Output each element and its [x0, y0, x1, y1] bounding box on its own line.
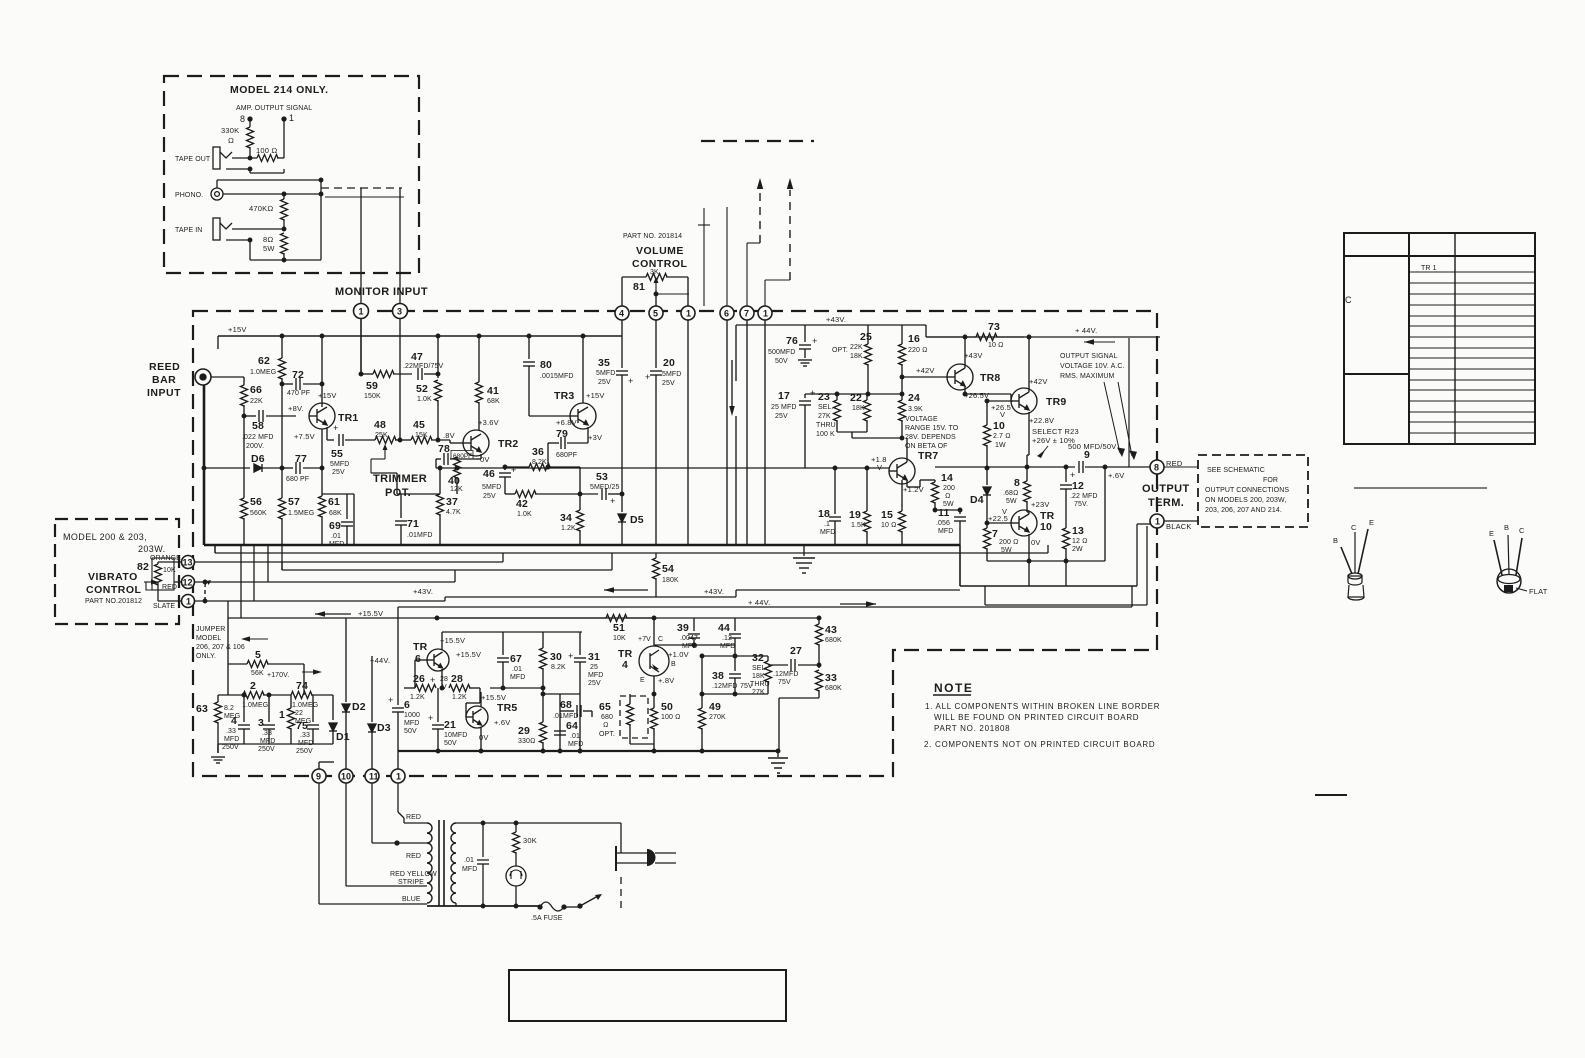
- row 645: [654, 644, 694, 646]
- svg-text:200 Ω: 200 Ω: [999, 539, 1019, 546]
- wire term1 black to box: [1164, 520, 1198, 522]
- svg-text:RED: RED: [162, 584, 177, 591]
- svg-text:.01: .01: [512, 666, 522, 673]
- terminal 5: [649, 306, 663, 320]
- svg-text:18: 18: [818, 508, 830, 520]
- svg-text:PART NO. 201814: PART NO. 201814: [623, 233, 682, 240]
- transistor TR2: [463, 430, 489, 456]
- svg-text:203W.: 203W.: [138, 544, 166, 554]
- svg-text:+42V: +42V: [1029, 377, 1048, 386]
- svg-text:470 PF: 470 PF: [287, 390, 310, 397]
- select arrow: [1040, 446, 1048, 456]
- wire 14 bottom junction to 11: [933, 508, 937, 512]
- svg-text:75V.: 75V.: [1074, 501, 1088, 508]
- svg-text:REED: REED: [149, 361, 180, 373]
- TR2 emitter wire: [480, 454, 482, 459]
- svg-text:44: 44: [718, 622, 730, 634]
- terminal 3 monitor: [393, 304, 408, 319]
- transistor TR9: [1011, 388, 1037, 414]
- mid row 688: [490, 687, 543, 689]
- svg-text:TR 1: TR 1: [1421, 265, 1437, 272]
- primary winding: [427, 823, 432, 903]
- svg-text:B: B: [1504, 523, 1509, 532]
- +15.5V arrow left: [315, 613, 351, 615]
- svg-text:+: +: [610, 496, 616, 506]
- svg-text:680K: 680K: [825, 685, 842, 692]
- see schematic text: [1205, 467, 1289, 514]
- capacitor 20 5MFD 25V: [655, 320, 657, 368]
- TR10 emitter down: [1028, 534, 1030, 561]
- resistor 42 1.0K row: [505, 493, 515, 495]
- svg-text:50V: 50V: [775, 358, 788, 365]
- +43V top bus: [736, 324, 926, 326]
- resistor 65 680 OPT: [629, 694, 631, 704]
- svg-text:TR3: TR3: [554, 390, 574, 402]
- svg-text:1.0MEG: 1.0MEG: [250, 369, 276, 376]
- TR8 emitter: [964, 386, 966, 394]
- svg-text:1: 1: [186, 597, 191, 607]
- svg-text:+15.5V: +15.5V: [440, 636, 465, 645]
- terminal 1 monitor: [354, 304, 369, 319]
- svg-text:+7.5V: +7.5V: [294, 432, 315, 441]
- wire 45 to TR2 base: [449, 440, 451, 443]
- svg-text:FOR: FOR: [1263, 477, 1278, 484]
- svg-text:52: 52: [416, 383, 428, 395]
- resistor 1 22MEG: [290, 695, 292, 708]
- svg-text:5W: 5W: [263, 244, 275, 253]
- resistor 33 680K: [816, 670, 823, 691]
- svg-text:62: 62: [258, 355, 270, 367]
- svg-text:17: 17: [778, 390, 790, 402]
- terminal 1c drop: [764, 320, 766, 545]
- svg-text:1000: 1000: [404, 712, 420, 719]
- terminal 1 vibrato: [182, 595, 195, 608]
- svg-text:250V: 250V: [222, 744, 239, 751]
- svg-text:+: +: [430, 675, 436, 685]
- svg-text:C: C: [1351, 523, 1357, 532]
- wire 44V bus down to output rail: [1128, 338, 1130, 467]
- svg-text:3.9K: 3.9K: [908, 406, 923, 413]
- svg-text:42: 42: [516, 498, 528, 510]
- svg-text:3: 3: [258, 717, 264, 729]
- secondary bottom rail: [455, 903, 457, 906]
- svg-text:5: 5: [653, 309, 658, 319]
- title block rectangle: [509, 970, 786, 1021]
- harness line 12 y582: [194, 581, 455, 583]
- svg-text:5MFD: 5MFD: [482, 484, 501, 491]
- wire 32 top row: [735, 655, 768, 657]
- svg-text:200V.: 200V.: [246, 443, 264, 450]
- svg-text:4: 4: [619, 309, 624, 319]
- resistor 56 560K: [243, 416, 245, 498]
- svg-text:.22 MFD: .22 MFD: [1070, 493, 1098, 500]
- capacitor 6 1000MFD 50V: [397, 690, 399, 705]
- plug wiring: [620, 823, 622, 853]
- svg-text:+: +: [511, 465, 517, 475]
- svg-text:330K: 330K: [221, 126, 239, 135]
- trimmer bracket to 71: [371, 472, 397, 474]
- svg-text:ON MODELS 200, 203W,: ON MODELS 200, 203W,: [1205, 497, 1286, 504]
- TR4 emitter: [653, 676, 655, 694]
- resistor 63 8.2MEG: [217, 695, 219, 702]
- svg-text:53: 53: [596, 471, 608, 483]
- terminal 8 dot: [248, 117, 252, 121]
- jumper dashed arrow: [205, 583, 210, 602]
- svg-text:8.2: 8.2: [224, 705, 234, 712]
- svg-text:81: 81: [633, 281, 645, 293]
- svg-text:79: 79: [556, 428, 568, 440]
- svg-text:B: B: [671, 661, 676, 668]
- wire term10 to stripe lead: [345, 783, 347, 886]
- svg-text:13: 13: [183, 558, 193, 568]
- svg-text:1.0MEG: 1.0MEG: [292, 702, 318, 709]
- svg-text:68: 68: [560, 699, 572, 711]
- svg-text:+1.0V: +1.0V: [668, 650, 689, 659]
- svg-text:+: +: [1070, 470, 1076, 480]
- svg-text:2W: 2W: [1072, 546, 1083, 553]
- svg-text:E: E: [1489, 529, 1494, 538]
- svg-text:22: 22: [295, 710, 303, 717]
- svg-text:2. COMPONENTS NOT ON PRINTED C: 2. COMPONENTS NOT ON PRINTED CIRCUIT BOA…: [924, 740, 1155, 749]
- capacitor 64 .01 MFD: [554, 731, 566, 735]
- svg-text:5MFD: 5MFD: [596, 370, 615, 377]
- svg-text:TR8: TR8: [980, 372, 1000, 384]
- resistor 62 1.0MEG: [281, 336, 283, 358]
- svg-text:22K: 22K: [850, 344, 863, 351]
- svg-text:RED: RED: [406, 853, 421, 860]
- svg-text:8Ω: 8Ω: [263, 235, 273, 244]
- svg-text:MFD: MFD: [568, 741, 583, 748]
- capacitor 58 .022MFD 200V: [244, 415, 256, 417]
- svg-text:49: 49: [709, 701, 721, 713]
- resistor 57 1.5MEG: [279, 498, 286, 519]
- capacitor 55 5MFD 25V: [339, 434, 343, 446]
- TR3 base row: [529, 415, 570, 417]
- svg-text:4.7K: 4.7K: [446, 509, 461, 516]
- svg-text:+15.5V: +15.5V: [358, 609, 383, 618]
- svg-text:OUTPUT: OUTPUT: [1142, 483, 1190, 495]
- +44V arrow left: [1084, 341, 1115, 343]
- capacitor 75 .33MFD 250V: [312, 695, 314, 722]
- svg-text:+.6V: +.6V: [494, 718, 510, 727]
- capacitor 38 .12MFD 75V: [729, 674, 741, 678]
- svg-text:C: C: [1519, 526, 1525, 535]
- 38/32 bottom row to 49: [702, 693, 768, 695]
- capacitor 47 .22MFD/75V: [418, 368, 422, 380]
- svg-text:82: 82: [137, 561, 149, 573]
- svg-text:.33: .33: [262, 730, 272, 737]
- svg-text:D2: D2: [352, 701, 366, 713]
- svg-text:D3: D3: [377, 722, 391, 734]
- svg-text:+43V.: +43V.: [704, 587, 724, 596]
- bottom joining wire: [250, 259, 321, 261]
- svg-text:10: 10: [1040, 521, 1052, 533]
- svg-text:OPT.: OPT.: [832, 347, 848, 354]
- svg-text:1: 1: [359, 307, 364, 317]
- TR5 base riser: [479, 688, 481, 703]
- svg-text:5MFD/25: 5MFD/25: [590, 484, 620, 491]
- resistor 30K: [515, 823, 517, 832]
- wire 23/22 bottom: [837, 431, 867, 433]
- transistor TR5: [466, 706, 488, 728]
- tape out sleeve wire: [226, 168, 250, 170]
- down arrow on wire x732: [731, 360, 733, 410]
- svg-text:75V: 75V: [778, 679, 791, 686]
- TR6 base wire: [415, 659, 427, 661]
- svg-text:BAR: BAR: [152, 374, 176, 386]
- svg-text:PART NO. 201808: PART NO. 201808: [934, 724, 1010, 733]
- svg-text:1: 1: [763, 309, 768, 319]
- svg-text:100 Ω: 100 Ω: [661, 714, 681, 721]
- svg-text:28V. DEPENDS: 28V. DEPENDS: [905, 434, 956, 441]
- bottom row power: [987, 560, 1105, 562]
- svg-text:25V: 25V: [483, 493, 496, 500]
- svg-text:27K: 27K: [818, 413, 831, 420]
- svg-text:SLATE: SLATE: [153, 603, 175, 610]
- transistor TR3: [570, 403, 596, 429]
- +43V arrow left: [604, 589, 648, 591]
- capacitor 39 .0047MFD: [693, 618, 695, 631]
- svg-text:+43V: +43V: [964, 351, 983, 360]
- svg-text:50: 50: [661, 701, 673, 713]
- svg-text:58: 58: [252, 420, 264, 432]
- transistor TR6: [427, 649, 449, 671]
- TR10 base wire: [986, 508, 988, 523]
- resistor 29 330ohm: [542, 694, 544, 722]
- resistor 43 680K: [818, 618, 820, 624]
- wire rail to black terminal: [1136, 524, 1138, 586]
- svg-text:SEL.: SEL.: [818, 404, 834, 411]
- terminal 6 drop: [726, 320, 728, 545]
- wire term11 to center tap: [371, 783, 373, 843]
- svg-text:RMS. MAXIMUM: RMS. MAXIMUM: [1060, 373, 1115, 380]
- svg-text:57: 57: [288, 496, 300, 508]
- diode D4: [986, 468, 988, 485]
- svg-text:+3.6V: +3.6V: [478, 418, 499, 427]
- svg-text:56: 56: [250, 496, 262, 508]
- svg-text:D6: D6: [251, 453, 265, 465]
- phono hot wire: [223, 193, 321, 195]
- svg-text:41: 41: [487, 385, 499, 397]
- svg-text:B: B: [1333, 536, 1338, 545]
- left riser x254: [253, 545, 255, 601]
- svg-text:WILL BE FOUND ON PRINTED CIRCU: WILL BE FOUND ON PRINTED CIRCUIT BOARD: [934, 713, 1139, 722]
- svg-text:4: 4: [231, 715, 237, 727]
- svg-text:80: 80: [540, 359, 552, 371]
- svg-text:10K: 10K: [163, 567, 176, 574]
- svg-text:+6.8V: +6.8V: [556, 418, 577, 427]
- svg-text:.12MFD: .12MFD: [712, 683, 738, 690]
- capacitor 68 .01MFD: [559, 694, 561, 751]
- svg-text:25: 25: [860, 331, 872, 343]
- svg-text:36: 36: [532, 446, 544, 458]
- svg-text:SEL: SEL: [752, 665, 766, 672]
- +44V arrow right: [840, 603, 866, 605]
- wire 62 to 57 column: [281, 378, 283, 498]
- svg-text:OUTPUT SIGNAL: OUTPUT SIGNAL: [1060, 353, 1118, 360]
- svg-text:.0047: .0047: [680, 635, 698, 642]
- capacitor 79 680PF: [561, 437, 565, 449]
- capacitor 53 5MFD/25: [602, 488, 606, 500]
- TR1 emitter column: [321, 429, 323, 496]
- TR7 collector: [906, 438, 908, 462]
- terminal 7: [740, 306, 754, 320]
- svg-text:220 Ω: 220 Ω: [908, 347, 928, 354]
- svg-text:30: 30: [550, 651, 562, 663]
- svg-text:MFD: MFD: [404, 720, 419, 727]
- svg-text:TR7: TR7: [918, 450, 938, 462]
- left riser x282: [281, 545, 283, 570]
- svg-text:67: 67: [510, 653, 522, 665]
- svg-text:680: 680: [601, 714, 613, 721]
- svg-text:MFD: MFD: [588, 672, 603, 679]
- resistor 23 SEL 27K THRU 100K: [836, 394, 838, 400]
- svg-text:68K: 68K: [487, 398, 500, 405]
- capacitor 12 .22MFD 75V: [1065, 467, 1067, 482]
- wire pot top to 13: [157, 562, 159, 564]
- svg-text:470KΩ: 470KΩ: [249, 204, 273, 213]
- svg-text:21: 21: [444, 719, 456, 731]
- resistor 30 8.2K: [542, 632, 544, 648]
- bottom row jumper section: [218, 743, 333, 745]
- svg-text:+: +: [333, 423, 339, 433]
- svg-text:45: 45: [413, 419, 425, 431]
- svg-text:JUMPER: JUMPER: [196, 626, 225, 633]
- svg-text:12: 12: [1072, 480, 1084, 492]
- terminal 12 vibrato: [182, 576, 195, 589]
- svg-text:18K: 18K: [752, 673, 765, 680]
- svg-text:8.2K: 8.2K: [532, 459, 547, 466]
- wire term9 to BLUE: [318, 783, 320, 904]
- svg-text:25V: 25V: [332, 469, 345, 476]
- stub wire terminal 6 above border: [726, 207, 728, 306]
- resistor 34 1.2K: [578, 492, 582, 496]
- svg-text:43: 43: [825, 624, 837, 636]
- bus riser from 736: [735, 325, 737, 381]
- svg-text:1.0K: 1.0K: [517, 511, 532, 518]
- resistor 74 1.0MEG: [291, 692, 312, 699]
- center rail segment preamp: [436, 467, 457, 469]
- svg-text:76: 76: [786, 335, 798, 347]
- svg-text:+ 44V.: + 44V.: [1075, 326, 1097, 335]
- svg-text:Ω: Ω: [228, 136, 234, 145]
- svg-text:11: 11: [369, 772, 379, 782]
- svg-text:C: C: [1345, 295, 1352, 305]
- svg-text:2.7 Ω: 2.7 Ω: [993, 433, 1011, 440]
- svg-text:MODEL 200 & 203,: MODEL 200 & 203,: [63, 532, 147, 542]
- TR10 collector: [1028, 512, 1030, 514]
- TR7 base rail (center rail): [457, 467, 889, 469]
- svg-text:12 Ω: 12 Ω: [1072, 538, 1088, 545]
- monitor wire1 lower: [360, 318, 362, 374]
- svg-text:23: 23: [818, 391, 830, 403]
- svg-text:.33: .33: [226, 728, 236, 735]
- svg-text:11: 11: [938, 507, 950, 519]
- terminal 13 vibrato: [182, 556, 195, 569]
- parts table frame: [1344, 233, 1535, 444]
- resistor 22 18K: [866, 394, 868, 400]
- resistor 73 10 ohm: [926, 336, 976, 338]
- svg-text:25 MFD: 25 MFD: [771, 404, 797, 411]
- capacitor 71 .01MFD: [400, 494, 402, 518]
- capacitor 9 500MFD/50V: [1079, 461, 1083, 473]
- transistor TR4: [639, 646, 669, 676]
- capacitor 11 .056 MFD: [959, 510, 961, 514]
- resistor 16 220 ohm: [901, 325, 903, 344]
- svg-text:28: 28: [440, 676, 448, 683]
- svg-text:.8V: .8V: [443, 431, 455, 440]
- phono top loop wire: [216, 180, 218, 188]
- svg-text:+: +: [812, 336, 818, 346]
- svg-text:22K: 22K: [250, 398, 263, 405]
- fuse .5A: [539, 905, 541, 907]
- svg-text:.5A FUSE: .5A FUSE: [531, 915, 563, 922]
- svg-text:2: 2: [250, 680, 256, 692]
- svg-text:+.8V: +.8V: [658, 676, 674, 685]
- resistor 32 SEL 18K THRU 27K: [767, 656, 769, 661]
- capacitor 67 .01MFD: [502, 632, 504, 655]
- svg-text:8: 8: [1154, 463, 1159, 473]
- 31 bottom to row: [579, 688, 581, 694]
- harness +43V line: [445, 596, 736, 598]
- transistor TR8: [947, 364, 973, 390]
- dashed shielded link to monitor wires: [321, 187, 402, 189]
- svg-text:25V: 25V: [588, 680, 601, 687]
- resistor 25 OPT 22K 18K: [867, 325, 869, 344]
- svg-text:+: +: [810, 388, 816, 398]
- svg-text:+15V: +15V: [228, 325, 247, 334]
- 470K resistor: [283, 194, 285, 199]
- capacitor 76 500MFD 50V: [804, 325, 806, 342]
- terminal 7 drop: [746, 320, 748, 545]
- resistor 19 1.5K: [866, 468, 868, 511]
- rail 632 TR6: [442, 631, 582, 633]
- svg-text:+.6V: +.6V: [1108, 471, 1124, 480]
- separator line under table: [1354, 487, 1487, 489]
- see-schematic dashed box: [1198, 455, 1308, 527]
- svg-text:TRIMMER: TRIMMER: [373, 473, 427, 485]
- TR5 collector: [480, 692, 482, 707]
- svg-text:5MFD: 5MFD: [662, 371, 681, 378]
- svg-text:24: 24: [908, 392, 920, 404]
- svg-text:25: 25: [590, 664, 598, 671]
- svg-text:+44V.: +44V.: [370, 656, 390, 665]
- svg-text:V: V: [1002, 507, 1007, 516]
- terminal 1b drop: [687, 320, 689, 545]
- svg-text:+: +: [645, 372, 651, 382]
- svg-text:TR1: TR1: [338, 412, 358, 424]
- svg-text:25V: 25V: [662, 380, 675, 387]
- svg-text:.1: .1: [824, 521, 830, 528]
- svg-text:E: E: [1369, 518, 1374, 527]
- svg-text:.01: .01: [570, 733, 580, 740]
- monitor wire 3 drop: [399, 318, 401, 440]
- svg-text:+: +: [568, 651, 574, 661]
- svg-text:8: 8: [240, 114, 245, 124]
- svg-text:35: 35: [598, 357, 610, 369]
- TR6 emitter: [441, 669, 443, 688]
- svg-text:200: 200: [943, 485, 955, 492]
- svg-text:15K: 15K: [415, 432, 428, 439]
- resistor 26 1.2K: [415, 685, 436, 692]
- wire cap9 right to terminal 8: [1149, 466, 1151, 468]
- capacitor 46 5MFD 25V: [504, 467, 506, 470]
- capacitor 21 10MFD 50V: [437, 688, 439, 722]
- ground jumper section: [211, 757, 225, 763]
- svg-text:61: 61: [328, 496, 340, 508]
- left riser x215: [214, 545, 216, 553]
- svg-text:25K: 25K: [375, 432, 388, 439]
